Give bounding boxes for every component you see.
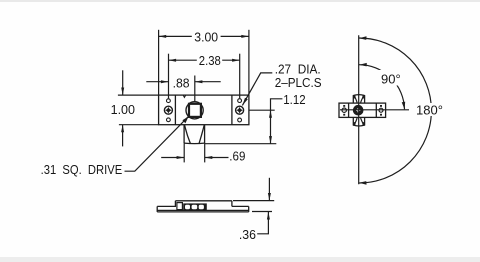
- arrowhead leader .31: [182, 116, 188, 123]
- arrowhead .69 left: [177, 156, 185, 159]
- leader .27 DIA: [242, 73, 272, 106]
- left tab top small hole: [167, 99, 171, 103]
- bottom view small rect detail: [177, 203, 183, 210]
- right tab bottom small hole: [238, 118, 242, 122]
- side view top wing: [353, 95, 364, 104]
- svg-text:180°: 180°: [416, 102, 443, 117]
- arrowhead .69 right: [205, 156, 213, 159]
- dim .69 left arrow shaft: [161, 157, 184, 159]
- left tab bottom small hole: [167, 118, 171, 122]
- bottom view pill hole 2: [192, 205, 198, 210]
- arrowhead .88 right: [195, 80, 203, 83]
- white halo for 180 label: [415, 103, 445, 116]
- dim 2.38 ext line left: [168, 54, 170, 99]
- dim .36 ext line bottom: [252, 211, 272, 213]
- right mounting hole cross: [236, 107, 243, 114]
- side view left hole: [342, 108, 346, 112]
- bottom view pill hole 1: [185, 205, 190, 210]
- side view main bar: [339, 103, 386, 117]
- svg-text:2.38: 2.38: [199, 53, 221, 68]
- dim 1.00 bottom arrow shaft: [122, 125, 124, 147]
- bottom view right end: [248, 206, 250, 212]
- side view drive (filled): [353, 105, 364, 116]
- dim .69 ext line left: [183, 143, 185, 162]
- boss right chamfer: [199, 125, 204, 143]
- dim .36 bottom arrow shaft and leader: [257, 212, 268, 234]
- bottom view pill hole 3: [199, 205, 204, 210]
- dim 2.38 line: [169, 59, 197, 61]
- side view bottom wing: [353, 117, 364, 126]
- side view horizontal radius line: [340, 109, 409, 111]
- plate front view outline: [159, 95, 249, 125]
- dim 1.12 ext line bottom: [205, 143, 276, 145]
- dim .88 ext line (drive center): [194, 76, 196, 102]
- dim .88 left arrow shaft: [146, 81, 168, 83]
- side view top wing corner marks: [353, 95, 356, 99]
- dim .88 right arrow shaft: [195, 81, 221, 83]
- boss bottom: [184, 142, 205, 145]
- bottom view right step: [231, 201, 233, 207]
- dim 1.00 top ext line: [118, 94, 159, 96]
- bottom view bottom edge: [157, 209, 249, 211]
- arrowhead 3.00 left: [159, 35, 167, 38]
- dim .69 right arrow shaft: [205, 157, 229, 159]
- arrowhead arc 90 bottom: [402, 102, 406, 110]
- right tab top small hole: [238, 99, 242, 103]
- dim 3.00 ext line left: [158, 30, 160, 95]
- svg-text:.36: .36: [239, 227, 256, 242]
- arrowhead 2.38 right: [232, 59, 240, 62]
- svg-text:.31 SQ. DRIVE: .31 SQ. DRIVE: [41, 162, 123, 177]
- right tab divider: [231, 95, 233, 125]
- left tab divider: [174, 95, 176, 125]
- side view bottom wing chamfers: [354, 117, 357, 125]
- side view left marks: [343, 105, 345, 107]
- svg-text:1.00: 1.00: [111, 102, 135, 117]
- dim 3.00 line: [159, 35, 192, 37]
- arrowhead 1.00 bottom: [121, 125, 124, 133]
- top scan band: [0, 0, 480, 2]
- dim .69 ext line right: [204, 143, 206, 162]
- dim 1.00 bottom ext line: [119, 124, 159, 126]
- dim 1.00 top arrow shaft: [122, 70, 124, 95]
- dim 1.12 ext line top: [249, 109, 275, 111]
- dim 3.00 ext line right: [248, 30, 250, 95]
- notch on plate top edge: [183, 95, 186, 97]
- side view bottom wing corner marks: [353, 122, 356, 126]
- side view top wing chamfers: [354, 95, 357, 103]
- arrowhead arc 180 bottom: [359, 181, 367, 185]
- boss left side: [183, 125, 185, 144]
- svg-text:3.00: 3.00: [194, 29, 218, 44]
- left mounting hole: [164, 106, 172, 114]
- arrowhead 1.00 top: [121, 88, 124, 96]
- arrowhead .88 left: [161, 80, 169, 83]
- 180 degree arc: [359, 38, 432, 183]
- dim .36 ext line top: [233, 200, 274, 202]
- side view right hole: [379, 108, 383, 112]
- arrowhead .36 bottom: [267, 212, 270, 220]
- right mounting hole: [236, 106, 244, 114]
- side view vertical centerline: [358, 35, 360, 184]
- dim 2.38 ext line right: [239, 54, 241, 99]
- bottom view dark boss block: [183, 203, 207, 210]
- arrowhead 3.00 right: [241, 35, 249, 38]
- square drive hole: [189, 104, 201, 117]
- bottom view right arm top edge: [232, 205, 249, 207]
- arrowhead 1.12 bottom: [269, 136, 272, 144]
- boss left chamfer: [185, 125, 191, 143]
- bottom view raised center top edge: [175, 200, 232, 202]
- arrowhead arc 180 top: [359, 36, 367, 40]
- arrowhead 2.38 left: [169, 59, 177, 62]
- dim 1.12 line and leader: [271, 99, 283, 144]
- drive circle: [186, 102, 203, 119]
- bottom view left end: [156, 206, 158, 212]
- bottom view left arm top edge: [157, 201, 175, 207]
- arrowhead arc 90 top: [359, 63, 367, 67]
- svg-text:.69: .69: [229, 149, 245, 164]
- side view right marks: [380, 105, 382, 107]
- arrowhead 1.12 top: [269, 110, 272, 118]
- left mounting hole cross: [165, 107, 172, 114]
- arrowhead leader .27: [242, 98, 247, 106]
- svg-text:90°: 90°: [381, 72, 401, 87]
- svg-text:1.12: 1.12: [283, 92, 305, 107]
- white halo for 90 label: [378, 70, 404, 86]
- arrowhead .36 top: [268, 193, 271, 201]
- dim .36 top arrow shaft: [268, 178, 270, 201]
- boss right side: [204, 125, 206, 144]
- svg-text:.88: .88: [173, 75, 190, 90]
- side view drive white notches: [357, 108, 359, 112]
- 90 degree arc: [359, 65, 405, 110]
- leader .31 SQ DRIVE: [125, 116, 189, 171]
- bottom scan band: [0, 257, 480, 262]
- side view right divider: [375, 103, 377, 117]
- svg-text:2–PLC.S: 2–PLC.S: [275, 75, 322, 90]
- side view left divider: [348, 103, 350, 117]
